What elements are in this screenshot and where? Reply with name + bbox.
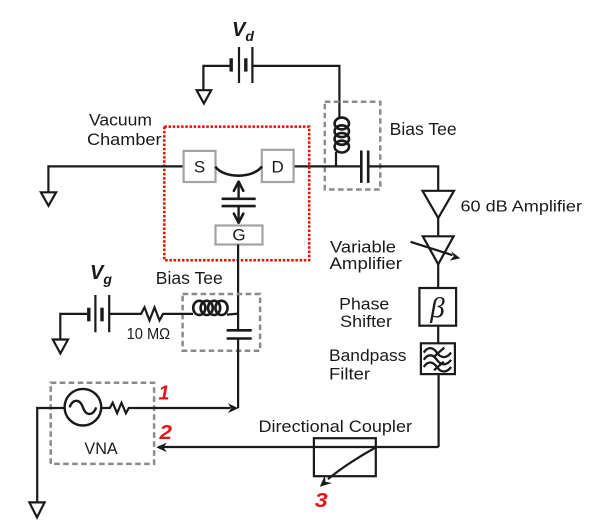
wire A2 to phase shifter — [437, 264, 439, 288]
directional coupler DC1 — [314, 438, 376, 476]
arrowhead port 1 — [228, 403, 238, 413]
wire C2 down to port 1 junction — [237, 339, 239, 409]
svg-text:Shifter: Shifter — [340, 312, 392, 331]
capacitor C2 (gate bias tee) — [227, 330, 252, 338]
resistor (VNA source impedance) — [108, 403, 132, 413]
wire bandpass filter down to coupler line — [438, 374, 440, 447]
bandpass filter FL1 — [421, 343, 455, 374]
voltage source Vg (battery) — [89, 295, 109, 332]
wire port 1 to gate line — [131, 407, 230, 409]
wire drain line D to C1 — [294, 165, 360, 167]
svg-text:Bias Tee: Bias Tee — [390, 119, 457, 139]
wire Vg positive lead — [109, 313, 138, 315]
ground (Vg) — [53, 340, 68, 354]
svg-text:Filter: Filter — [329, 366, 371, 384]
svg-text:3: 3 — [315, 490, 328, 512]
wire R1 to L2 — [166, 313, 193, 315]
wire gate down to C2 — [237, 245, 239, 331]
svg-text:1: 1 — [159, 382, 170, 404]
svg-text:Chamber: Chamber — [87, 130, 162, 149]
svg-text:Bandpass: Bandpass — [329, 347, 406, 365]
inductor L1 (drain bias tee) — [335, 118, 349, 153]
svg-text:S: S — [194, 158, 205, 177]
wire phase shifter to bandpass filter — [437, 326, 439, 344]
wire coupler through-line to VNA port 2 — [158, 446, 439, 448]
wire Vg negative lead — [60, 313, 87, 315]
wire source line to ground — [48, 165, 183, 167]
voltage source Vd (battery) — [231, 47, 252, 83]
amplifier A1 (60 dB) — [423, 191, 455, 218]
coupled-port branch with arrow — [328, 448, 376, 480]
svg-text:10 MΩ: 10 MΩ — [127, 326, 171, 343]
wire VNA left lead to ground — [37, 407, 64, 409]
wire Vg to ground — [59, 313, 61, 340]
svg-text:2: 2 — [158, 422, 172, 444]
wire VNA output lead — [101, 407, 107, 409]
gate capacitor plates — [222, 199, 256, 206]
suspended nanotube (curved wire S to D) — [215, 166, 262, 175]
ground (source) — [41, 192, 56, 206]
drain electrode D — [262, 150, 294, 182]
arrowhead into VNA port 2 — [156, 443, 166, 453]
svg-text:60 dB Amplifier: 60 dB Amplifier — [461, 199, 583, 216]
vacuum chamber (red dotted enclosure) — [164, 127, 309, 261]
wire L1 bottom stub — [335, 152, 337, 168]
svg-text:Variable: Variable — [330, 238, 396, 256]
svg-text:G: G — [232, 226, 245, 245]
amplifier A2 (variable) — [423, 236, 454, 264]
svg-text:Directional Coupler: Directional Coupler — [259, 417, 413, 436]
svg-text:Vacuum: Vacuum — [89, 110, 152, 129]
source electrode S — [184, 151, 216, 182]
wire A1 to A2 — [437, 218, 439, 236]
capacitor C1 (drain bias tee) — [361, 151, 368, 183]
svg-text:VNA: VNA — [84, 439, 118, 458]
gate electrode G — [216, 226, 263, 245]
wire Vd to ground — [202, 65, 204, 90]
wire L2 to gate line — [227, 314, 238, 315]
ground (Vd) — [197, 90, 212, 103]
vibration arrow down — [237, 206, 239, 222]
svg-text:Amplifier: Amplifier — [330, 255, 403, 273]
arrow across variable amplifier — [411, 242, 453, 255]
svg-text:D: D — [272, 158, 284, 177]
vibration arrow up — [237, 182, 239, 198]
inductor L2 (gate bias tee) — [193, 301, 227, 315]
svg-text:β: β — [429, 292, 445, 324]
VNA dashed enclosure — [51, 383, 154, 464]
wire Vd positive lead to bias tee — [252, 66, 339, 119]
wire Vd negative lead — [203, 65, 229, 67]
svg-text:Phase: Phase — [339, 294, 389, 313]
wire C1 to amplifier corner — [369, 166, 438, 190]
ground (VNA) — [29, 502, 44, 517]
AC source (VNA) — [65, 389, 102, 426]
bias tee U2 (drain) dashed enclosure — [325, 102, 381, 190]
svg-text:Bias Tee: Bias Tee — [156, 268, 223, 288]
bias tee U4 (gate) dashed enclosure — [183, 294, 261, 351]
resistor R1 10 Mohm — [138, 307, 166, 320]
phase shifter U3 (beta box) — [419, 288, 456, 326]
